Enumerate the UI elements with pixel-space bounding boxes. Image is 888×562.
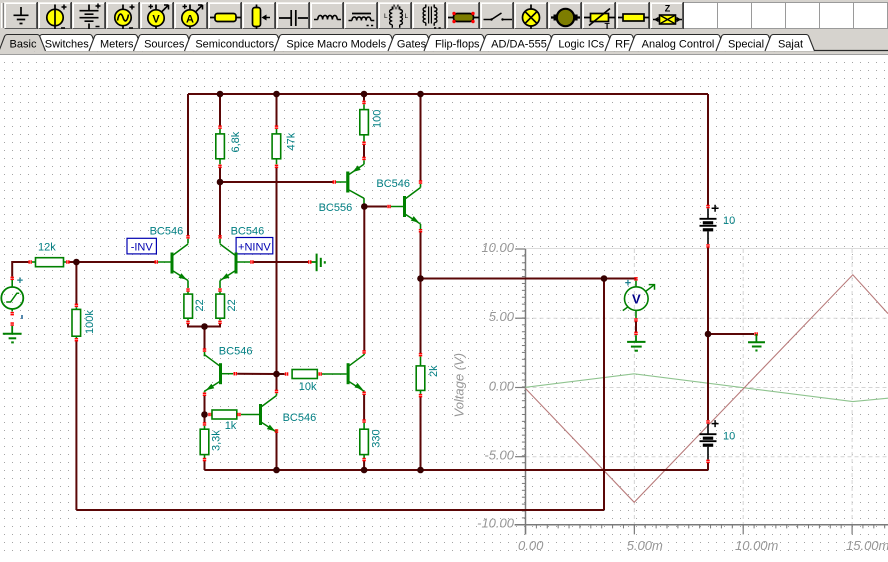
- wire out node to voltmeter: [421, 278, 637, 280]
- wire out node down to 2k: [420, 279, 422, 354]
- transistor Q3 BC556 (PNP): [333, 157, 366, 205]
- svg-text:V: V: [152, 14, 160, 26]
- junction rail/2k: [417, 467, 424, 474]
- toolbar: [0, 0, 888, 31]
- junction rail/47k: [273, 91, 280, 98]
- toolbar button: fuse tool: [616, 2, 649, 29]
- wire tail to mirror collector: [204, 327, 206, 349]
- resistor R8 2k: [416, 353, 425, 398]
- svg-text:3,3k: 3,3k: [211, 430, 223, 451]
- wire node B to output base: [364, 206, 387, 208]
- chart x-axis labels: [518, 538, 888, 553]
- svg-text:-10.00: -10.00: [477, 516, 515, 531]
- toolbar button: ammeter tool: [174, 2, 207, 29]
- svg-text:Gates: Gates: [397, 39, 427, 51]
- node label -INV: [127, 238, 156, 254]
- transistor Q6 BC546 mirror output: [241, 390, 278, 433]
- svg-text:330: 330: [371, 429, 383, 447]
- svg-text:1k: 1k: [225, 420, 237, 432]
- svg-text:BC556: BC556: [319, 202, 353, 214]
- tab Spice Macro Models: [274, 35, 397, 52]
- junction rail/330: [361, 467, 368, 474]
- resistor R2 47k: [272, 125, 281, 168]
- svg-text:22: 22: [194, 299, 206, 311]
- tab Gates: [388, 35, 434, 52]
- junction supply midpoint: [705, 331, 712, 338]
- wire V2 to bottom rail: [707, 463, 709, 470]
- toolbar button: voltmeter tool: [140, 2, 173, 29]
- svg-text:0.00: 0.00: [489, 378, 515, 393]
- voltage generator VG1: [1, 277, 23, 316]
- wire V1 to mid node: [707, 247, 709, 334]
- chart y-axis labels: [477, 240, 515, 531]
- chart y-axis: [515, 249, 525, 535]
- resistor R7 330: [360, 419, 369, 461]
- svg-text:T: T: [605, 21, 611, 29]
- wire feedback drop x=604: [603, 279, 605, 511]
- wire top supply rail: [188, 93, 708, 95]
- ground under VM1: [627, 332, 645, 351]
- toolbar button: switch tool: [480, 2, 513, 29]
- tab Flip-flops: [424, 35, 489, 52]
- svg-text:BC546: BC546: [376, 178, 410, 190]
- wire 330 to bottom rail: [363, 461, 365, 470]
- svg-text:-INV: -INV: [131, 241, 154, 253]
- wire 100k to feedback: [75, 341, 77, 510]
- transistor Q2 BC546 non-inverting input (mirrored): [218, 235, 253, 292]
- wire 12k to input node: [70, 261, 77, 263]
- tab Meters: [89, 35, 143, 52]
- junction 1k node: [201, 411, 208, 418]
- svg-text:BC546: BC546: [150, 226, 184, 238]
- tab Analog Control: [629, 35, 726, 52]
- wire x=276.5 rail to 47k: [276, 94, 278, 126]
- toolbar button: voltage source tool: [38, 2, 71, 29]
- wire output emitter to out node: [420, 232, 422, 279]
- svg-text:10: 10: [723, 215, 735, 227]
- wire 1k node to 3.3k: [204, 415, 206, 423]
- ground at supply midpoint: [748, 332, 765, 350]
- svg-text:Sajat: Sajat: [778, 39, 803, 51]
- svg-text:12k: 12k: [38, 242, 56, 254]
- svg-text:BC546: BC546: [283, 412, 317, 424]
- toolbar button: impedance tool: [650, 2, 683, 29]
- sideways ground at +NINV base: [308, 254, 325, 272]
- wire driver emitter to 330: [363, 395, 365, 420]
- tab RF: [605, 35, 639, 52]
- tab Special: [716, 35, 775, 52]
- tab Sajat: [765, 35, 815, 52]
- resistor R6 10k: [285, 370, 347, 379]
- junction node A: [217, 179, 224, 186]
- toolbar button: resistor tool: [208, 2, 241, 29]
- wire 3.3k to bottom rail corner: [204, 461, 206, 470]
- wire 47k down to mirror node: [276, 168, 278, 374]
- svg-text:100: 100: [372, 110, 384, 128]
- toolbar button: motor tool: [548, 2, 581, 29]
- svg-text:2k: 2k: [428, 365, 440, 377]
- junction output node: [417, 275, 424, 282]
- transistor Q4 BC546 output follower: [387, 180, 422, 232]
- svg-text:100k: 100k: [84, 310, 96, 334]
- wire voltmeter to its ground: [635, 322, 637, 333]
- junction mirror node: [273, 371, 280, 378]
- wire BC556 collector node to driver collector: [363, 204, 365, 351]
- svg-text:22: 22: [226, 299, 238, 311]
- svg-text:Basic: Basic: [10, 39, 37, 51]
- wire input node to -INV base: [76, 261, 154, 263]
- svg-text:L: L: [405, 13, 409, 20]
- svg-text:V: V: [632, 292, 641, 307]
- svg-text:10.00: 10.00: [481, 240, 514, 255]
- toolbar button: transformer tool: [412, 2, 445, 29]
- resistor R1 6.8k: [216, 125, 225, 168]
- wire node A to right diffpair collector: [219, 182, 221, 237]
- voltmeter VM1: [623, 277, 655, 322]
- toolbar button: relay tool: [446, 2, 479, 29]
- svg-text:Voltage (V): Voltage (V): [452, 353, 467, 418]
- svg-text:BC546: BC546: [219, 346, 253, 358]
- tab Switches: [34, 35, 98, 52]
- red input trace: [526, 275, 888, 503]
- wire mid node to right ground: [708, 333, 754, 335]
- battery V2 10: [700, 420, 736, 463]
- toolbar button: generator tool: [106, 2, 139, 29]
- svg-text:15.00m: 15.00m: [846, 538, 888, 553]
- tab AD/DA-555: [480, 35, 557, 52]
- chart top frame line (10V gridline): [526, 248, 888, 250]
- junction rail/100: [361, 91, 368, 98]
- svg-text:RF: RF: [615, 39, 630, 51]
- resistor RE2 22: [216, 292, 225, 324]
- svg-text:L: L: [384, 13, 388, 20]
- node label +NINV: [236, 238, 273, 254]
- svg-text:Analog Control: Analog Control: [642, 39, 715, 51]
- wire Q4 collector to mirror node: [276, 374, 278, 390]
- wire Q5 base to mirror node: [237, 373, 276, 375]
- wire mirror node to 10k: [277, 373, 285, 375]
- junction rail/6.8k: [217, 91, 224, 98]
- svg-text:10: 10: [723, 431, 735, 443]
- wire mirror emitter to 1k node: [204, 396, 206, 415]
- chart x-axis: [515, 525, 888, 535]
- tab Semiconductors: [185, 35, 284, 52]
- wire 2k to bottom rail: [420, 397, 422, 470]
- wire mid node to battery V2: [707, 334, 709, 420]
- wire Q4 emitter to bottom rail: [276, 433, 278, 471]
- wire output collector to rail: [420, 94, 422, 181]
- minus sign of VG1: [21, 315, 23, 319]
- svg-text:Sources: Sources: [144, 39, 185, 51]
- svg-text:M: M: [393, 3, 399, 12]
- svg-text:A: A: [186, 14, 194, 26]
- junction rail/output collector: [417, 91, 424, 98]
- wire input node down to 100k: [75, 262, 77, 304]
- svg-text:Flip-flops: Flip-flops: [435, 39, 480, 51]
- resistor 12k: [28, 258, 69, 267]
- chart vertical dashed gridlines: [634, 249, 852, 525]
- toolbar button: potentiometer tool: [242, 2, 275, 29]
- tab Logic ICs: [547, 35, 615, 52]
- wire diffpair tail joiner: [188, 324, 220, 327]
- wire x=364 rail to 100: [363, 94, 365, 101]
- transistor Q7 BC546 driver: [347, 350, 366, 395]
- svg-text:+: +: [625, 277, 631, 289]
- svg-text:Logic ICs: Logic ICs: [558, 39, 604, 51]
- svg-text:Semiconductors: Semiconductors: [195, 39, 274, 51]
- svg-text:BC546: BC546: [231, 226, 265, 238]
- wire x=220 rail to 6.8k: [219, 94, 221, 126]
- green output trace: [526, 374, 888, 402]
- svg-text:Spice Macro Models: Spice Macro Models: [286, 39, 386, 51]
- toolbar button: controlled resistor tool: [582, 2, 615, 29]
- toolbar button: battery tool: [72, 2, 105, 29]
- svg-text:+: +: [17, 275, 23, 287]
- junction feedback node: [601, 275, 608, 282]
- wire x=220 6.8k to node A: [219, 168, 221, 182]
- transistor Q5 BC546 mirror diode side (mirrored): [203, 348, 237, 396]
- resistor R4 1k: [208, 410, 240, 419]
- toolbar button: inductor with core tool: [344, 2, 377, 29]
- wire source to 12k: [12, 262, 28, 277]
- resistor R3 100: [360, 101, 369, 145]
- tab Basic (selected): [0, 35, 46, 52]
- transistor Q1 BC546 inverting input: [155, 235, 190, 292]
- wire +NINV base to ground: [254, 261, 309, 263]
- wire 100 to BC556 emitter: [363, 145, 365, 157]
- svg-text:Z: Z: [665, 4, 671, 14]
- wire left collector drop x=188: [187, 94, 189, 237]
- toolbar button: coupled inductors tool: [378, 2, 411, 29]
- resistor 100k: [72, 304, 81, 342]
- svg-text:Meters: Meters: [100, 39, 134, 51]
- svg-text:-5.00: -5.00: [484, 448, 514, 463]
- toolbar button: inductor tool: [310, 2, 343, 29]
- svg-text:Switches: Switches: [45, 39, 90, 51]
- resistor R5 3.3k: [200, 422, 209, 461]
- junction node B: [361, 203, 368, 210]
- svg-text:6,8k: 6,8k: [230, 131, 242, 152]
- tab Sources: [134, 35, 194, 52]
- battery V1 10: [700, 205, 736, 248]
- resistor RE1 22: [184, 292, 193, 324]
- svg-text:0.00: 0.00: [518, 538, 544, 553]
- svg-text:10k: 10k: [299, 381, 317, 393]
- svg-text:AD/DA-555: AD/DA-555: [491, 39, 547, 51]
- wire feedback bottom run: [76, 509, 604, 511]
- toolbar button: capacitor tool: [276, 2, 309, 29]
- wire rail corner to battery V1: [707, 94, 709, 205]
- svg-text:5.00: 5.00: [489, 309, 515, 324]
- svg-text:+NINV: +NINV: [238, 241, 271, 253]
- wire bottom rail: [205, 469, 709, 471]
- junction rail/Q6: [273, 467, 280, 474]
- tab bar: [0, 31, 888, 52]
- ground under VG1: [3, 322, 22, 342]
- toolbar button: lamp tool: [514, 2, 547, 29]
- junction input node: [73, 259, 80, 266]
- chart horizontal dashed gridlines: [526, 318, 888, 457]
- svg-text:47k: 47k: [286, 132, 298, 150]
- junction diffpair tail: [201, 323, 208, 330]
- svg-text:5.00m: 5.00m: [627, 538, 663, 553]
- wire node A to BC556 base: [220, 181, 333, 183]
- svg-text:Special: Special: [728, 39, 764, 51]
- toolbar button: ground tool: [4, 2, 37, 29]
- svg-text:10.00m: 10.00m: [735, 538, 779, 553]
